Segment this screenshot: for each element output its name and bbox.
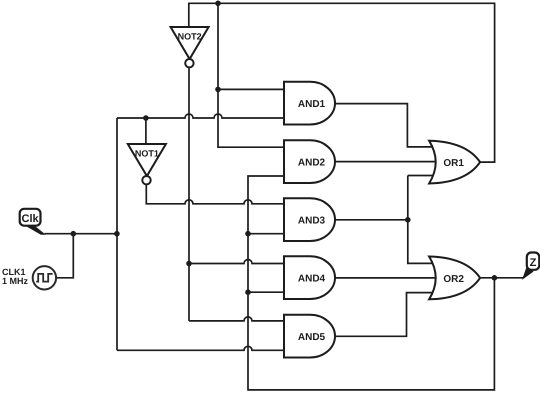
wire x=218 down to AND2 top input <box>218 89 287 147</box>
junction dot AND1 top input branch <box>215 87 221 93</box>
wire OR2 output to Z <box>479 271 528 278</box>
junction dot feedback AND3 bottom <box>245 231 251 237</box>
wire OR2 feedback: output down, bottom run, up x=248 (net Q2) <box>248 176 494 390</box>
wire feedback to AND3 bottom input <box>248 233 287 235</box>
svg-text:AND4: AND4 <box>298 274 326 285</box>
wire AND2 output to OR1 middle input <box>335 161 436 163</box>
node Clk flag wedge <box>24 225 44 235</box>
wire NOT2 output vertical x=189 <box>188 67 190 321</box>
node Z flag wedge <box>523 267 533 279</box>
and-gate AND5 <box>284 315 335 358</box>
wire junction vertical OR1 bottom input / OR2 top input <box>408 176 436 264</box>
inverter NOT1 <box>128 144 166 184</box>
junction dot Clk net at CLK1 riser <box>71 231 77 237</box>
wire AND5 bottom input from clock with hop <box>117 346 287 350</box>
svg-text:OR1: OR1 <box>443 158 464 169</box>
svg-text:AND3: AND3 <box>298 216 326 227</box>
svg-text:1 MHz: 1 MHz <box>2 276 29 286</box>
svg-text:NOT2: NOT2 <box>178 32 202 42</box>
and-gate AND2 <box>284 140 335 183</box>
junction dot Clk net at vertical x=117 <box>114 231 120 237</box>
node Clk label box <box>20 209 41 226</box>
wire AND5 output to OR2 bottom input <box>335 293 436 337</box>
wire clock vertical x=117 <box>116 118 118 350</box>
or-gate OR2 <box>429 257 480 300</box>
junction dot AND3 output <box>405 217 411 223</box>
clock source CLK1 circle <box>33 266 56 289</box>
or-gate OR1 <box>429 141 480 184</box>
junction dot feedback AND4 bottom <box>245 289 251 295</box>
wire top feedback OR1 to NOT2 input (net Q1) <box>189 3 495 162</box>
wire AND1 output to OR1 top input <box>335 104 436 147</box>
junction dot NOT1 input on clock wire <box>143 115 149 121</box>
junction dot OR2 output <box>492 275 498 281</box>
junction dot top wire x=218 <box>215 1 221 7</box>
svg-text:Z: Z <box>530 257 537 269</box>
inverter NOT2 <box>171 27 209 67</box>
junction dot NOT2 output to AND4 branch <box>186 261 192 267</box>
wire NOT1 output to AND3 top input with hops <box>146 184 287 203</box>
wire CLK1 output up to Clk net <box>56 234 73 278</box>
svg-text:AND5: AND5 <box>298 332 326 343</box>
svg-text:Clk: Clk <box>22 213 40 225</box>
wire feedback to AND4 bottom input <box>248 291 287 293</box>
svg-text:NOT1: NOT1 <box>135 149 159 159</box>
and-gate AND1 <box>284 82 335 125</box>
wire NOT2 to AND4 top input with hop <box>189 260 287 264</box>
wire NOT1 input drop <box>145 118 147 144</box>
and-gate AND3 <box>284 198 335 241</box>
wire NOT2 to AND5 top input with hop <box>189 317 287 321</box>
svg-text:AND1: AND1 <box>298 99 326 110</box>
wire OR1 feedback branch vertical x=218 <box>217 3 219 89</box>
node Z label box <box>527 253 540 270</box>
clock source CLK1 waveform glyph <box>36 274 52 282</box>
wire Clk node horizontal <box>44 233 117 235</box>
svg-text:OR2: OR2 <box>443 274 464 285</box>
svg-text:AND2: AND2 <box>298 158 326 169</box>
wire AND4 output to OR2 middle input <box>335 277 436 279</box>
and-gate AND4 <box>284 256 335 299</box>
wire clock horizontal y=118 with hops <box>117 114 287 118</box>
wire AND1 top input <box>218 88 287 90</box>
wire AND3 output to junction <box>335 219 408 221</box>
